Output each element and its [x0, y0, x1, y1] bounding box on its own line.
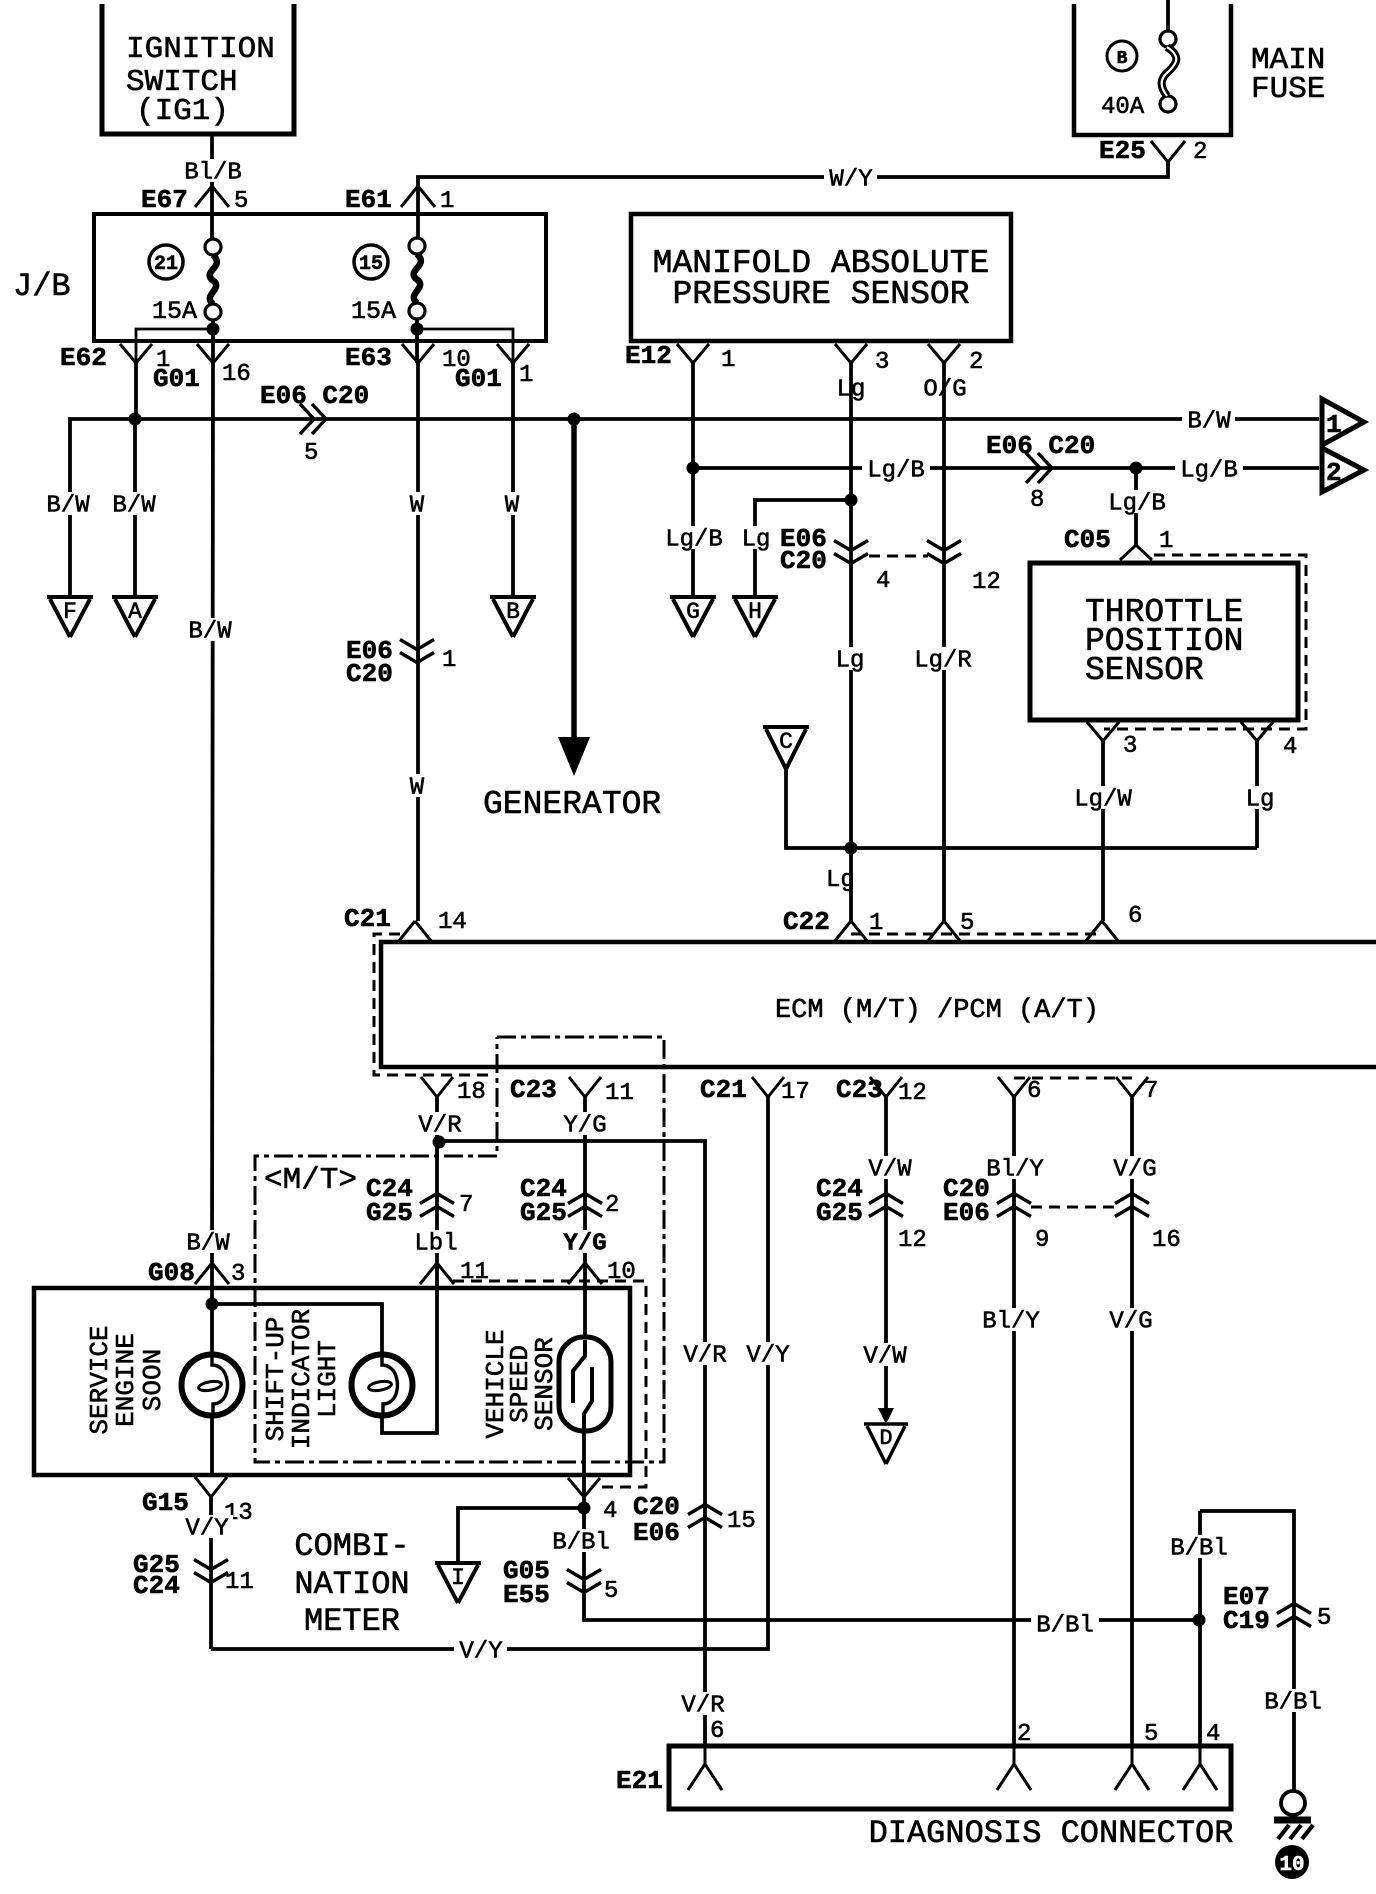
dashed link ECM pins 6-7 [1014, 1077, 1132, 1080]
wire to ground I [458, 1508, 584, 1563]
svg-text:16: 16 [1152, 1227, 1181, 1254]
ground B [490, 597, 536, 637]
svg-text:5: 5 [304, 440, 318, 467]
svg-text:V/W: V/W [863, 1344, 907, 1371]
label pin 11 (meter) [460, 1259, 489, 1286]
wire branch to shift-up lamp [212, 1304, 382, 1356]
junction dot under fuse 15 [411, 323, 424, 336]
label G08 [148, 1258, 195, 1288]
connector TPS pin 4 fork [1241, 722, 1273, 741]
svg-text:Lg/B: Lg/B [665, 527, 723, 554]
inline connector C24 G25 pin 12 [869, 1194, 903, 1217]
label pin 10 (meter) [607, 1259, 636, 1286]
dashed link between connectors 4 and 12 [869, 555, 928, 558]
label Lg/B (C05 wire) [1103, 490, 1171, 518]
connector E63 pin 10 fork [402, 344, 434, 363]
label pin 18 [457, 1079, 486, 1106]
inline connector C20 E06 pin 9 [997, 1194, 1031, 1217]
svg-text:Lg: Lg [1246, 787, 1275, 814]
wire: shift-up lamp to Lbl pin 11 [382, 1263, 437, 1433]
arrow terminal 2 [1322, 448, 1364, 492]
connector G15 pin 13 fork [195, 1477, 227, 1497]
svg-text:FUSE: FUSE [1251, 72, 1325, 107]
ground G [670, 597, 716, 637]
svg-text:10: 10 [1279, 1854, 1304, 1877]
label DIAGNOSIS CONNECTOR [869, 1815, 1234, 1852]
svg-text:SOON: SOON [138, 1349, 168, 1411]
label pin 16 [1152, 1227, 1181, 1254]
connector TPS pin 3 fork [1087, 722, 1119, 741]
svg-text:C20: C20 [346, 659, 393, 689]
wire B/W bus from ground F up across to arrow 1 [70, 419, 1319, 598]
svg-text:15: 15 [727, 1508, 756, 1535]
wire Lg/B: E12 pin1 down to ground G [691, 363, 695, 598]
connector meter pin 11 fork [420, 1263, 454, 1284]
svg-text:B/Bl: B/Bl [1170, 1536, 1228, 1563]
wire B/Bl: meter pin4 down and right to E21 pin 4 wire [584, 1497, 1199, 1620]
label G01 (left) [153, 364, 200, 394]
svg-text:18: 18 [457, 1079, 486, 1106]
label Lg/W [1069, 786, 1137, 814]
svg-text:V/Y: V/Y [185, 1516, 228, 1543]
svg-text:PRESSURE SENSOR: PRESSURE SENSOR [672, 276, 969, 313]
label B/W (A wire) [107, 492, 160, 520]
svg-text:E06: E06 [943, 1198, 990, 1228]
connector ECM pin 18 fork [421, 1077, 453, 1097]
wire stub above main fuse [1166, 0, 1170, 32]
label V/R (mid) [678, 1342, 731, 1370]
svg-text:Bl/B: Bl/B [184, 160, 242, 187]
label pin 4 (meter) [603, 1498, 617, 1525]
label B/W (bus right) [1182, 408, 1235, 436]
svg-text:4: 4 [1206, 1721, 1220, 1748]
label B/Bl (ground wire) [1259, 1689, 1327, 1717]
label E07 C19 [1223, 1582, 1270, 1636]
svg-text:6: 6 [1128, 903, 1142, 930]
svg-text:Y/G: Y/G [563, 1231, 606, 1258]
circled fuse number 21 [149, 245, 183, 279]
connector E21 pin 6 fork [688, 1746, 722, 1790]
dash-dot M/T option outline [255, 1037, 664, 1462]
svg-text:NATION: NATION [294, 1566, 409, 1603]
svg-text:5: 5 [1317, 1605, 1331, 1632]
inline connector C20 E06 pin 15 on V/R wire [688, 1505, 722, 1528]
label pin 9 [1035, 1227, 1049, 1254]
label Lg (H wire) [737, 526, 776, 554]
ground H [732, 597, 778, 637]
label Lg/B (G wire) [660, 526, 728, 554]
svg-text:B/W: B/W [112, 493, 156, 520]
wire W: E63 pin1 down to ground B [511, 363, 515, 598]
svg-text:5: 5 [1144, 1721, 1158, 1748]
circled B [1107, 41, 1137, 71]
arrow terminal 1 [1322, 399, 1364, 445]
svg-text:6: 6 [710, 1718, 724, 1745]
label COMBINATION METER [294, 1528, 409, 1640]
svg-text:E21: E21 [616, 1766, 663, 1796]
svg-text:2: 2 [605, 1192, 619, 1219]
label C23 (pin12) [836, 1075, 883, 1105]
label C24 G25 (pin2) [520, 1174, 567, 1228]
wire Lg/B bus to arrow 2 [693, 466, 1319, 470]
label C05 [1064, 525, 1111, 555]
wire V/Y: meter G15-13 down to V/Y run [209, 1497, 213, 1649]
fuse 21 15A element [205, 239, 221, 320]
svg-text:Lg: Lg [836, 648, 865, 675]
inline connector E06 C20 on B/W bus [300, 404, 326, 434]
circled fuse number 15 [354, 245, 388, 279]
label pin 13 [224, 1500, 253, 1527]
connector E21 pin 5 fork [1115, 1746, 1149, 1790]
svg-text:<M/T>: <M/T> [264, 1163, 357, 1198]
label Bl/Y (lower) [977, 1308, 1045, 1336]
wire from ground C to Lg node and TPS pin4 [786, 769, 1257, 848]
svg-text:1: 1 [519, 362, 533, 389]
svg-text:W: W [410, 775, 425, 802]
connector E12 pin 1 fork [677, 344, 709, 363]
svg-text:B: B [1117, 49, 1128, 69]
label W (lower) [405, 774, 429, 802]
svg-text:SENSOR: SENSOR [530, 1337, 560, 1431]
label pin 12 (O/G wire) [972, 569, 1001, 596]
svg-text:Bl/Y: Bl/Y [982, 1309, 1040, 1336]
svg-text:E63: E63 [345, 343, 392, 373]
svg-text:E06 C20: E06 C20 [986, 431, 1095, 461]
label pin 1 (E62) [156, 347, 170, 374]
wire B/Bl: bracket down to E21 pin 4 [1198, 1511, 1202, 1746]
wire to GENERATOR (thick) with arrowhead [558, 419, 590, 776]
label pin 2 (E12) [969, 349, 983, 376]
svg-text:V/G: V/G [1109, 1309, 1152, 1336]
svg-text:8: 8 [1030, 487, 1044, 514]
svg-text:11: 11 [225, 1569, 254, 1596]
svg-text:2: 2 [1017, 1721, 1031, 1748]
svg-text:Lg/W: Lg/W [1074, 787, 1132, 814]
label E06 C20 (bus) [260, 381, 369, 411]
svg-text:B: B [506, 599, 520, 625]
svg-text:B/Bl: B/Bl [1036, 1613, 1094, 1640]
dashed loop meter pins 10-4 [453, 1281, 646, 1487]
connector E21 pin 2 fork [997, 1746, 1031, 1790]
svg-text:Lg: Lg [742, 527, 771, 554]
svg-text:V/G: V/G [1113, 1157, 1156, 1184]
label Lg/R [909, 647, 977, 675]
junction dot meter branch [206, 1298, 219, 1311]
junction dot B/Bl branch [578, 1502, 591, 1515]
label Lg (mid) [831, 647, 870, 675]
ground A [112, 597, 158, 637]
label O/G (E12-2) [918, 376, 971, 404]
svg-text:Y/G: Y/G [563, 1113, 606, 1140]
svg-text:Lg/B: Lg/B [867, 458, 925, 485]
svg-text:H: H [748, 599, 762, 625]
label 40A [1101, 94, 1145, 121]
svg-text:Lg/B: Lg/B [1180, 458, 1238, 485]
label pin 16 [222, 361, 251, 388]
label E06 C20 (Lg wire) [780, 524, 827, 576]
label V/W (upper) [863, 1156, 916, 1184]
wire: fuse 15 out to E63 pins 10 and 1 [417, 319, 513, 363]
label pin 6 (E21) [710, 1718, 724, 1745]
ground D [864, 1424, 908, 1464]
wire: SES lamp to meter bottom [210, 1414, 214, 1476]
svg-text:V/W: V/W [868, 1157, 912, 1184]
svg-text:E67: E67 [141, 185, 188, 215]
vehicle speed sensor symbol [559, 1337, 611, 1431]
label V/Y (run) [454, 1638, 507, 1666]
svg-text:W: W [410, 493, 425, 520]
label C22 [783, 907, 830, 937]
label E62 [60, 343, 107, 373]
label pin 5 (bus connector) [304, 440, 318, 467]
label V/W (lower) [858, 1343, 911, 1371]
fuse B 40A element [1160, 31, 1176, 112]
label E67 [141, 185, 188, 215]
label G15 [142, 1488, 189, 1518]
label V/G (upper) [1108, 1156, 1161, 1184]
inline connector E06 C20 pin 4 on Lg wire [834, 541, 868, 564]
label E06 (W wire) [346, 636, 393, 689]
svg-text:B/Bl: B/Bl [552, 1530, 610, 1557]
svg-text:G25: G25 [816, 1198, 863, 1228]
label Lg (TPS-4) [1241, 786, 1280, 814]
svg-text:G25: G25 [366, 1198, 413, 1228]
wire Y/G: ECM C23-11 down through meter [583, 1097, 587, 1263]
connector C22 pin 1 fork [834, 921, 868, 942]
label pin 1 (E12) [721, 347, 735, 374]
svg-text:IGNITION: IGNITION [126, 32, 275, 67]
label pin 7 (ECM) [1144, 1078, 1158, 1105]
dashed outline of throttle position sensor [1104, 555, 1306, 729]
svg-text:4: 4 [876, 568, 890, 595]
label Lbl [409, 1230, 462, 1258]
junction dot V/R [433, 1136, 446, 1149]
junction dot Lg/C branch [845, 842, 858, 855]
svg-text:E06: E06 [633, 1518, 680, 1548]
connector E62 pin 1 fork [120, 344, 152, 363]
svg-text:12: 12 [898, 1080, 927, 1107]
label B/W (F wire) [41, 492, 94, 520]
wire: E67 fork into fuse 21 [210, 186, 214, 240]
ground F [47, 597, 93, 637]
label W (B wire) [500, 492, 524, 520]
svg-text:C24: C24 [133, 1571, 180, 1601]
svg-text:6: 6 [1027, 1078, 1041, 1105]
ground I [435, 1563, 481, 1603]
label V/Y (G15) [180, 1515, 233, 1543]
label V/R (top) [413, 1112, 466, 1140]
svg-text:B/W: B/W [1187, 409, 1231, 436]
wire B/W: E62 pin16 down to meter G08-3 [212, 363, 213, 1263]
svg-text:Lbl: Lbl [414, 1231, 457, 1258]
inline connector E06 C20 on Lg/B bus [1026, 453, 1052, 483]
svg-text:2: 2 [969, 349, 983, 376]
svg-text:12: 12 [972, 569, 1001, 596]
svg-text:SENSOR: SENSOR [1085, 652, 1204, 689]
connector ECM C23 pin 11 fork [569, 1077, 601, 1097]
svg-text:21: 21 [154, 253, 178, 276]
label Bl/Y (upper) [981, 1156, 1049, 1184]
svg-text:1: 1 [442, 647, 456, 674]
svg-text:C21: C21 [344, 904, 391, 934]
connector C05 pin 1 fork [1120, 545, 1152, 560]
connector C22 pin 6 fork [1085, 921, 1119, 942]
svg-text:1: 1 [440, 188, 454, 215]
label W (upper) [405, 492, 429, 520]
svg-text:V/R: V/R [683, 1343, 726, 1370]
svg-text:G: G [686, 599, 700, 625]
label pin 6 (C22) [1128, 903, 1142, 930]
junction dot Lg/B left [687, 462, 700, 475]
label B/W (long wire) [183, 618, 236, 646]
box: DIAGNOSIS CONNECTOR E21 [669, 1746, 1231, 1809]
connector ECM C21 pin 17 fork [752, 1077, 784, 1097]
svg-text:4: 4 [603, 1498, 617, 1525]
label pin 11 (C23) [605, 1080, 634, 1107]
label E61 [345, 185, 392, 215]
connector meter pin 4 fork [568, 1478, 600, 1497]
wire V/R branch right and down to E21 pin 6 [439, 1141, 705, 1746]
label pin 1 (E63) [519, 362, 533, 389]
connector ECM C23 pin 12 fork [870, 1077, 902, 1097]
label pin 11 (G25) [225, 1569, 254, 1596]
svg-text:B/Bl: B/Bl [1264, 1690, 1322, 1717]
svg-text:Lg/R: Lg/R [914, 648, 972, 675]
label pin 6 (ECM) [1027, 1078, 1041, 1105]
svg-text:C23: C23 [510, 1075, 557, 1105]
wire Y/G through VSS [584, 1263, 585, 1497]
connector ECM pin 6 fork [998, 1077, 1030, 1097]
connector G08 pin 3 fork [195, 1263, 229, 1284]
inline connector E07 C19 pin 5 [1277, 1604, 1311, 1627]
svg-text:15A: 15A [152, 297, 197, 326]
inline connector G25 C24 pin 11 [194, 1560, 228, 1583]
label pin 2 (E21) [1017, 1721, 1031, 1748]
junction dot Lg/H branch [845, 494, 858, 507]
label C24 G25 (pin12) [816, 1174, 863, 1228]
inline connector E06 C20 pin 1 on W wire [400, 640, 434, 663]
label GENERATOR [483, 786, 661, 823]
label G25 C24 [133, 1550, 180, 1601]
svg-text:B/W: B/W [186, 1231, 230, 1258]
svg-text:ECM (M/T) /PCM (A/T): ECM (M/T) /PCM (A/T) [775, 996, 1099, 1026]
svg-text:C19: C19 [1223, 1606, 1270, 1636]
label V/G (lower) [1104, 1308, 1157, 1336]
svg-text:E06 C20: E06 C20 [260, 381, 369, 411]
label pin 3 (TPS) [1123, 733, 1137, 760]
lamp: SERVICE ENGINE SOON indicator [182, 1355, 243, 1416]
connector E12 pin 2 fork [928, 344, 960, 363]
label B/Bl (bracket) [1165, 1535, 1233, 1563]
wire O/G - Lg/R: E12 pin2 down to ECM C22-5 [942, 363, 946, 921]
wire: E61 fork into fuse 15 [416, 186, 420, 239]
wire V/Y: ECM C21-17 down and left under meter [211, 1097, 768, 1649]
label C24 G25 (pin7) [366, 1174, 413, 1228]
box: THROTTLE POSITION SENSOR [1030, 563, 1298, 720]
svg-text:40A: 40A [1101, 94, 1145, 121]
label pin 12 (chevron) [898, 1227, 927, 1254]
label pin 7 [459, 1192, 473, 1219]
label pin 5 (G05) [604, 1578, 618, 1605]
dashed outline at ECM left [374, 934, 495, 1075]
label 15A (fuse 15) [351, 297, 396, 326]
label E21 [616, 1766, 663, 1796]
label pin 4 (E21) [1206, 1721, 1220, 1748]
arrowhead into ground D [878, 1408, 894, 1424]
wire Lg/W: TPS pin3 down to ECM C22-6 [1101, 741, 1105, 921]
inline connector pin 16 [1115, 1194, 1149, 1217]
svg-text:15A: 15A [351, 297, 396, 326]
svg-text:E12: E12 [625, 341, 672, 371]
svg-text:16: 16 [222, 361, 251, 388]
svg-text:15: 15 [359, 253, 383, 276]
label pin 5 (E07) [1317, 1605, 1331, 1632]
body ground symbol [1274, 1791, 1313, 1839]
label SERVICE ENGINE SOON [85, 1325, 168, 1434]
svg-text:E61: E61 [345, 185, 392, 215]
svg-text:METER: METER [304, 1603, 400, 1640]
svg-text:COMBI-: COMBI- [294, 1528, 409, 1565]
box: J/B junction block [94, 214, 546, 341]
svg-text:7: 7 [1144, 1078, 1158, 1105]
svg-text:LIGHT: LIGHT [313, 1340, 343, 1418]
connector E21 pin 4 fork [1183, 1746, 1217, 1790]
svg-text:C: C [779, 729, 793, 755]
inline connector C24 G25 pin 2 [568, 1194, 602, 1217]
svg-text:12: 12 [898, 1227, 927, 1254]
wire V/G: ECM pin7 down to E21 pin 5 [1130, 1097, 1134, 1746]
wire B/W inside meter to SES lamp and branch [210, 1263, 214, 1356]
svg-text:ENGINE: ENGINE [111, 1333, 141, 1427]
svg-text:GENERATOR: GENERATOR [483, 786, 661, 823]
connector E67 pin 5 fork at J/B top [195, 186, 229, 207]
svg-text:G08: G08 [148, 1258, 195, 1288]
inline connector G05 E55 pin 5 [567, 1570, 601, 1593]
svg-text:2: 2 [1326, 458, 1342, 488]
wire V/R: ECM pin18 down to junction [435, 1097, 439, 1263]
box: ECM (M/T) /PCM (A/T) [381, 942, 1376, 1067]
svg-text:17: 17 [781, 1079, 810, 1106]
label G01 (right) [455, 364, 502, 394]
label pin 12 (C23) [898, 1080, 927, 1107]
label C20 E06 (pin9) [943, 1174, 990, 1228]
connector E25 pin 2 fork [1151, 141, 1185, 162]
svg-text:E25: E25 [1099, 136, 1146, 166]
svg-text:2: 2 [1193, 139, 1207, 166]
junction dot B/Bl right [1193, 1614, 1206, 1627]
connector meter pin 10 fork [568, 1263, 602, 1284]
svg-text:I: I [451, 1565, 465, 1591]
label pin 1 [440, 188, 454, 215]
wire Lg branch to ground H [755, 500, 851, 598]
connector E62 pin 16 fork (G01) [197, 344, 229, 363]
wire V/W: ECM C23-12 down to ground D [884, 1097, 888, 1420]
box: MAIN FUSE [1074, 4, 1231, 135]
label VEHICLE SPEED SENSOR [481, 1329, 560, 1438]
svg-text:1: 1 [1159, 528, 1173, 555]
svg-text:11: 11 [605, 1080, 634, 1107]
label pin 1 (C22) [869, 910, 883, 937]
lamp: SHIFT-UP INDICATOR LIGHT [352, 1355, 413, 1416]
svg-text:B/W: B/W [46, 493, 90, 520]
svg-text:A: A [128, 599, 142, 625]
svg-text:W: W [505, 493, 520, 520]
fuse 15 15A element [409, 238, 425, 319]
junction dot bus/E62-1 [129, 413, 142, 426]
svg-text:C20: C20 [780, 546, 827, 576]
svg-text:V/Y: V/Y [746, 1343, 789, 1370]
connector C22 pin 5 fork [927, 921, 961, 942]
